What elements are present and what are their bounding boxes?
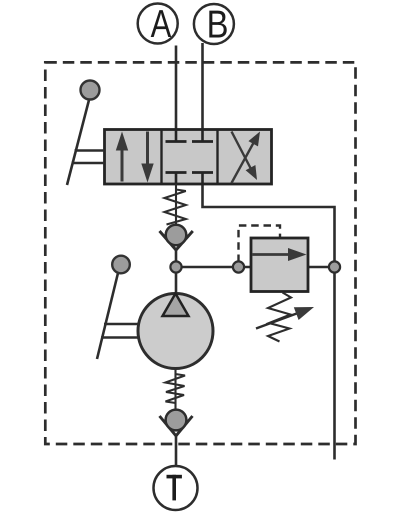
check valve CV2 ball [166,410,187,431]
valve lever handle line [67,98,90,185]
wire check valve CV2 to port T [175,436,178,468]
wire B-path: valve bottom right to right rail down past boundary [203,183,335,460]
junction node N2 [233,261,244,272]
port B [194,3,234,46]
pump lever linkage upper [104,323,139,326]
enclosure dashed boundary [45,62,355,444]
valve center-position blocked port top-left [166,130,187,142]
valve lever linkage lower [72,162,105,165]
check valve CV1 ball [166,225,187,246]
wire port A to valve [175,46,178,132]
check valve CV1 seat [160,231,193,250]
port A [138,3,178,46]
pump lever handle line [97,273,118,359]
valve left-position up arrow [116,132,128,182]
check valve CV2 seat [160,416,193,436]
valve center-position blocked port bottom-left [166,173,187,185]
hand pump P1 body [138,294,213,369]
svg-text:A: A [151,3,172,46]
junction node N1 [170,261,181,272]
relief valve RV1 body [251,238,308,292]
valve center-position blocked port top-right [192,130,213,142]
valve section divider right [216,130,218,185]
valve section divider left [160,130,162,185]
wire vertical axis: check valve to pump [175,249,178,295]
valve left-position down arrow [141,132,153,183]
valve center-position blocked port bottom-right [192,173,213,185]
valve right-position crossed arrow up [232,132,261,184]
spring S1 under valve [165,184,186,226]
svg-text:B: B [207,3,229,46]
pump flow triangle [163,294,189,317]
valve right-position crossed arrow down [232,132,258,181]
pump lever ball [112,256,130,274]
wire port B to valve [201,43,204,131]
wire main pressure line: node to relief valve [176,266,251,269]
junction node N3 [329,261,340,272]
directional valve U1 body [105,130,272,185]
valve lever ball [81,81,100,100]
port T [154,466,198,510]
relief valve adjustment arrow [256,307,314,329]
valve lever linkage upper [75,149,105,152]
spring S2 under pump [166,369,186,411]
pump lever linkage lower [101,336,139,339]
relief valve spring [268,293,291,342]
wire relief valve out to right rail [308,266,335,269]
relief valve flow arrow [253,248,307,261]
pilot dashed line to relief valve [239,226,281,263]
